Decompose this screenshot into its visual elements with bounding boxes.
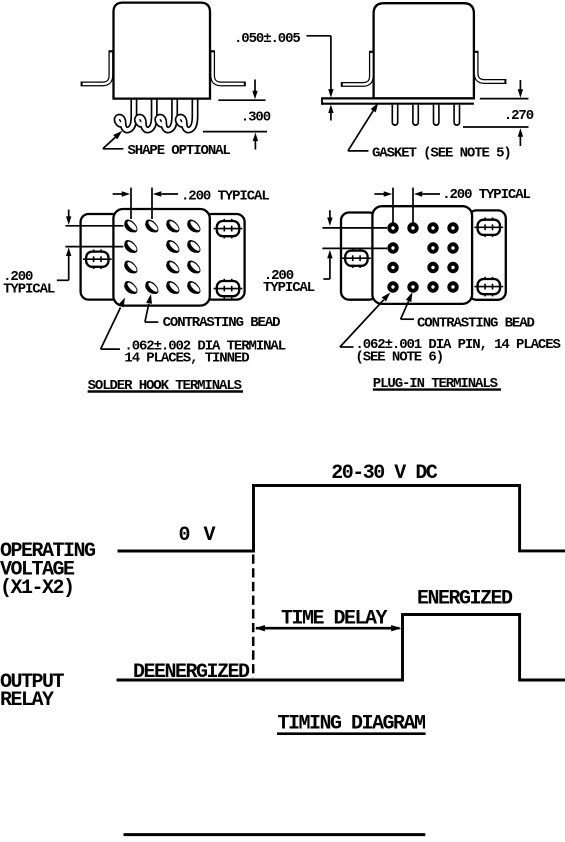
right mounting flange (bottom view) xyxy=(203,214,245,300)
svg-text:(X1-X2): (X1-X2) xyxy=(0,577,74,600)
plug-in pin (bottom view) r4c1 xyxy=(387,281,398,292)
svg-text:CONTRASTING BEAD: CONTRASTING BEAD xyxy=(417,316,535,332)
svg-text:(SEE NOTE 6): (SEE NOTE 6) xyxy=(355,349,443,365)
solder hook terminal lead 1 xyxy=(117,99,134,130)
svg-text:TYPICAL: TYPICAL xyxy=(3,281,55,297)
svg-text:SHAPE OPTIONAL: SHAPE OPTIONAL xyxy=(128,143,231,159)
mounting slot target A (left flange) xyxy=(83,249,112,269)
relay case body (plug-in version) xyxy=(374,3,474,98)
left mounting flange (bottom view) xyxy=(81,214,121,300)
mounting slot target F (right flange lower) xyxy=(474,277,503,297)
solder hook terminal (bottom view) r1c4 xyxy=(184,217,202,235)
plug-in pin lead 4 xyxy=(453,105,460,126)
timing diagram: output relay waveform xyxy=(117,615,565,681)
solder hook terminal (bottom view) r4c2 xyxy=(142,279,160,297)
svg-text:RELAY: RELAY xyxy=(0,689,54,712)
solder hook terminal (bottom view) r1c1 xyxy=(121,217,139,235)
svg-text:DEENERGIZED: DEENERGIZED xyxy=(133,661,250,684)
plug-in pin (bottom view) r3c4 xyxy=(447,262,458,273)
relay base outline (bottom view) xyxy=(372,206,472,304)
solder hook terminal (bottom view) r1c3 xyxy=(163,217,181,235)
mounting slot target D (left flange) xyxy=(342,248,371,268)
plug-in pin (bottom view) r2c1 xyxy=(387,242,398,253)
solder hook terminal (bottom view) r2c3 xyxy=(163,238,181,256)
plug-in pin (bottom view) r1c1 xyxy=(387,222,398,233)
solder hook terminal (bottom view) r1c2 xyxy=(142,217,160,235)
svg-text:.200 TYPICAL: .200 TYPICAL xyxy=(442,187,530,203)
svg-text:TIMING DIAGRAM: TIMING DIAGRAM xyxy=(278,713,427,736)
leader: GASKET note xyxy=(348,150,369,152)
plug-in pin (bottom view) r4c4 xyxy=(447,281,458,292)
svg-text:20-30 V DC: 20-30 V DC xyxy=(331,462,438,485)
solder hook terminal (bottom view) r2c4 xyxy=(184,238,202,256)
time delay dimension arrow xyxy=(256,627,400,630)
dimension .270: extension line from pin tips xyxy=(463,126,529,128)
solder hook terminal (bottom view) r4c1 xyxy=(121,279,139,297)
plug-in pin (bottom view) r3c1 xyxy=(387,262,398,273)
left mounting flange bracket xyxy=(341,51,372,85)
solder hook terminal (bottom view) r4c3 xyxy=(163,279,181,297)
leader: .062 pin note (right fig) xyxy=(340,346,354,348)
right mounting flange bracket xyxy=(476,51,506,82)
svg-text:0: 0 xyxy=(179,524,190,547)
leader: SHAPE OPTIONAL xyxy=(103,148,124,150)
plug-in pin (bottom view) r4c2 xyxy=(407,281,418,292)
dimension .300: lower arrow xyxy=(254,140,256,150)
plug-in pin (bottom view) r4c3 xyxy=(427,281,438,292)
dimension .300: extension line from case bottom xyxy=(218,99,265,101)
plug-in pin (bottom view) r3c3 xyxy=(427,262,438,273)
svg-text:V: V xyxy=(204,524,216,547)
left mounting flange bracket xyxy=(81,50,111,84)
svg-text:.050±.005: .050±.005 xyxy=(234,31,300,47)
dimension .270: extension line from gasket xyxy=(480,98,529,100)
right mounting flange bracket xyxy=(213,50,246,84)
svg-text:TYPICAL: TYPICAL xyxy=(263,280,315,296)
dimension .200 typical (top, horizontal pitch) extension lines xyxy=(130,188,132,219)
solder hook terminal (bottom view) r4c4 xyxy=(184,279,202,297)
svg-text:CONTRASTING BEAD: CONTRASTING BEAD xyxy=(163,315,281,331)
relay base outline (bottom view) xyxy=(113,209,209,306)
plug-in pin lead 3 xyxy=(433,105,440,126)
plug-in pin (bottom view) r1c3 xyxy=(427,222,438,233)
dimension .200 typical (left, vertical pitch) extension lines xyxy=(65,225,123,227)
mounting slot target C (right flange lower) xyxy=(214,279,243,299)
leader: contrasting bead (right fig) xyxy=(401,318,414,320)
relay case body (solder hook version) xyxy=(114,3,211,99)
mounting slot target E (right flange upper) xyxy=(474,218,503,238)
dimension .200 typical (left, vertical pitch) extension lines xyxy=(322,227,387,229)
solder hook terminal lead 2 xyxy=(137,99,154,130)
dimension .050 leader and arrows xyxy=(307,35,331,37)
svg-text:.270: .270 xyxy=(504,108,534,124)
plug-in pin lead 1 xyxy=(392,105,399,126)
plug-in pin (bottom view) r2c4 xyxy=(447,242,458,253)
dashed reference line at voltage step xyxy=(252,555,255,679)
solder hook terminal (bottom view) r3c1 xyxy=(121,258,139,276)
mounting slot target B (right flange upper) xyxy=(214,219,243,239)
svg-text:TIME DELAY: TIME DELAY xyxy=(281,607,388,630)
plug-in pin (bottom view) r1c4 xyxy=(447,222,458,233)
svg-text:.300: .300 xyxy=(241,110,271,126)
solder hook terminal (bottom view) r2c1 xyxy=(121,238,139,256)
dimension .200 typical (top, horizontal pitch) extension lines xyxy=(392,188,394,223)
bottom rule line xyxy=(124,833,426,836)
leader: contrasting bead (left fig) xyxy=(145,321,158,323)
svg-text:.200 TYPICAL: .200 TYPICAL xyxy=(181,188,269,204)
plug-in pin lead 2 xyxy=(412,105,419,126)
plug-in pin (bottom view) r1c2 xyxy=(407,222,418,233)
plug-in pin (bottom view) r2c3 xyxy=(427,242,438,253)
left mounting flange (bottom view) xyxy=(341,213,377,300)
gasket strip under case xyxy=(322,97,474,99)
solder hook terminal (bottom view) r3c4 xyxy=(184,258,202,276)
svg-text:14 PLACES, TINNED: 14 PLACES, TINNED xyxy=(124,351,249,367)
solder hook terminal lead 3 xyxy=(158,99,175,130)
solder hook terminal (bottom view) r3c3 xyxy=(163,258,181,276)
solder hook terminal lead 4 xyxy=(178,99,195,130)
dimension .300: extension line from hook bottoms xyxy=(203,131,267,133)
leader: .062 terminal note (left fig) xyxy=(101,348,120,350)
svg-text:ENERGIZED: ENERGIZED xyxy=(417,588,513,611)
timing diagram: operating voltage waveform xyxy=(118,486,565,552)
svg-text:GASKET (SEE NOTE 5): GASKET (SEE NOTE 5) xyxy=(372,146,511,162)
right mounting flange (bottom view) xyxy=(469,210,506,299)
dimension .300: upper arrow xyxy=(254,80,256,92)
